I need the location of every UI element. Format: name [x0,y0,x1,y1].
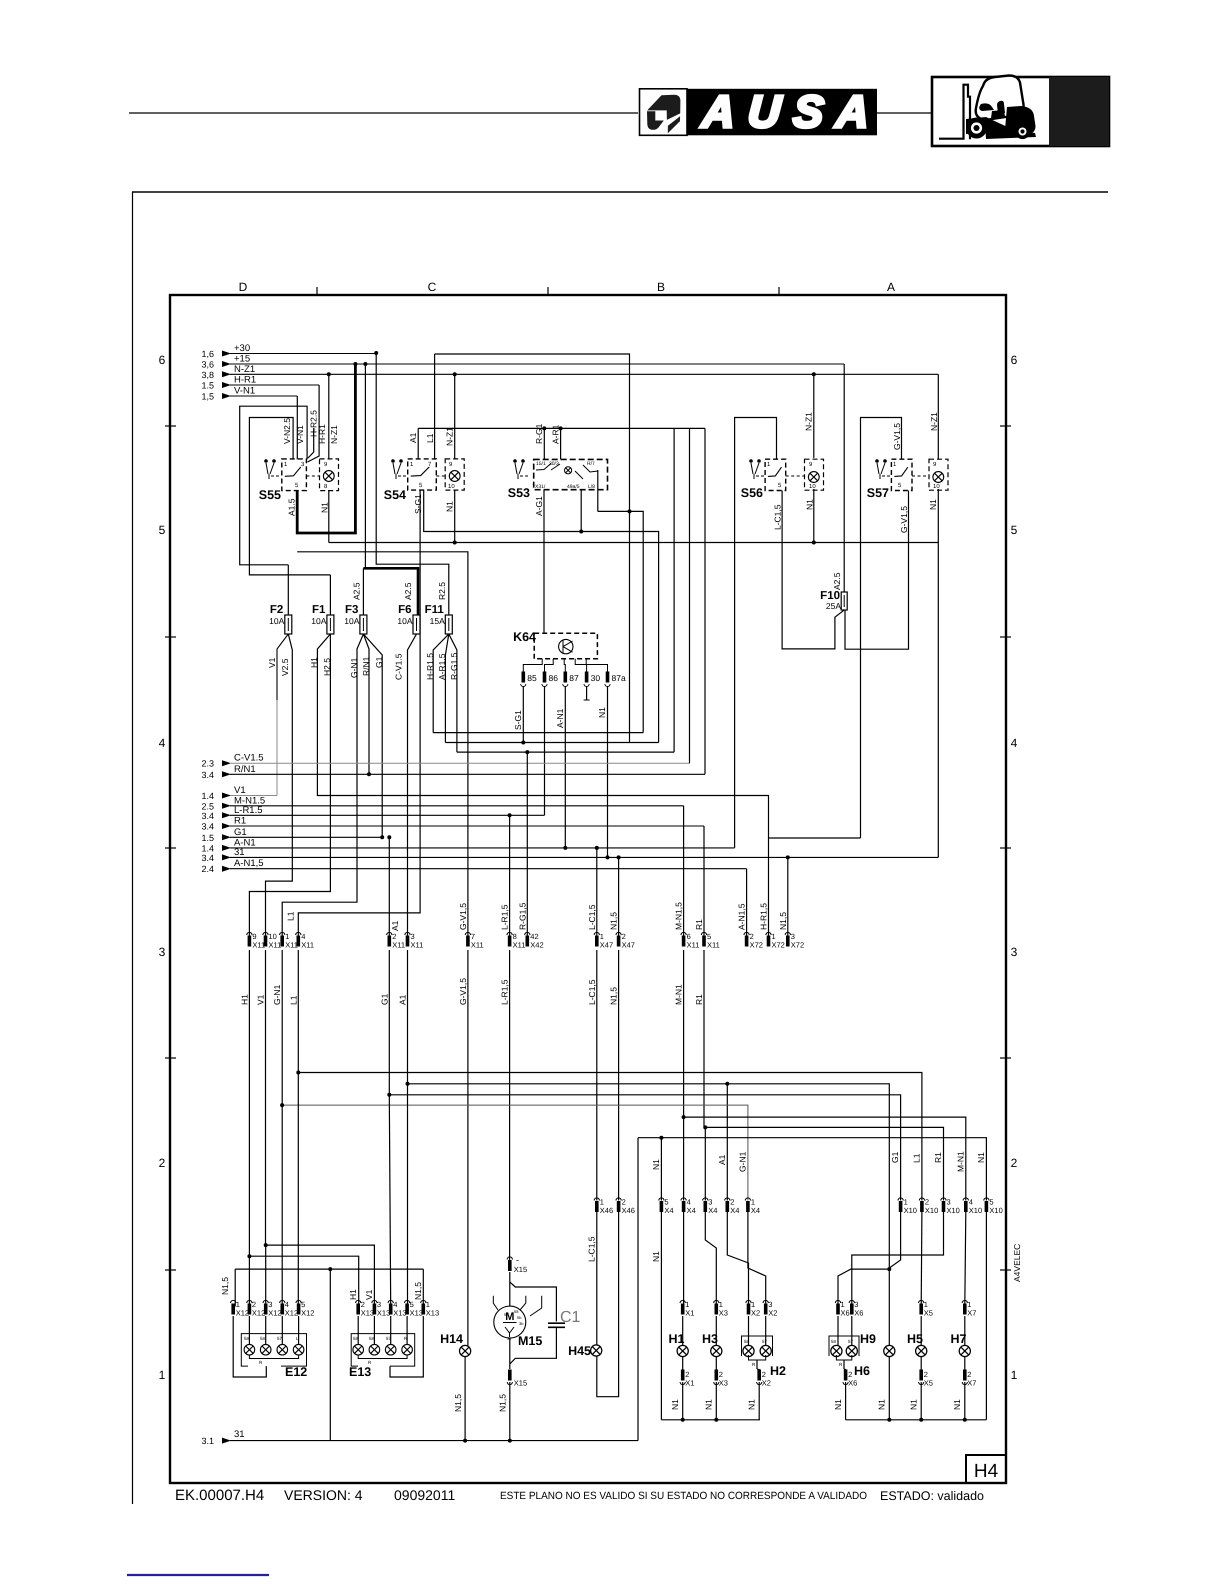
switch S55 toggle [264,459,268,463]
svg-text:10A: 10A [269,616,284,626]
wire lamp drop X6 [845,1368,847,1371]
wire X10.3 drop to X6.3 [852,1212,944,1307]
wire thick A2.5 link F3-F6 [363,568,418,615]
svg-text:N-Z1: N-Z1 [445,427,455,446]
wire F11 top feed [376,353,449,615]
wire H1 drop to bus [682,1382,684,1420]
svg-text:2.4: 2.4 [201,864,214,874]
svg-text:X72: X72 [750,941,763,950]
wire X10.1 drop to H9 [889,1212,900,1268]
connector X11 pin 4 [296,932,301,935]
svg-text:S-G1: S-G1 [413,494,423,514]
wire bus G1 row1094 [389,1095,900,1201]
connector X7 pin 2 bottom [963,1370,967,1381]
capacitor C1 [548,1322,565,1324]
wire S54 pinX31 drop [424,490,659,743]
connector X11 pin 2 [387,932,392,935]
connector X6 pin 2 bottom [844,1370,848,1381]
grid column tick [316,287,318,295]
wire S54 lamp N1 drop [454,490,456,543]
svg-text:X11: X11 [301,941,314,950]
svg-text:3: 3 [159,945,166,959]
svg-text:S53: S53 [508,486,530,500]
wire row511 (R-G...) [598,511,643,732]
svg-text:X46: X46 [622,1206,635,1215]
connector X12 pin 4 [280,1300,285,1303]
junction A-N1/X47.1 [595,846,599,850]
wire bus G-N1 row1105 [282,1105,748,1200]
lamp H45 [591,1345,602,1356]
svg-text:2: 2 [1011,1156,1018,1170]
svg-text:S56: S56 [741,486,763,500]
svg-text:5b: 5b [517,1315,522,1320]
connector X6 pin 1 top [835,1300,840,1303]
wire S53 pin49a drop [580,490,582,532]
connector X11 pin 10 [263,932,268,935]
svg-text:X11: X11 [285,941,298,950]
junction N1 row X4.5 [659,1136,663,1140]
svg-text:X11: X11 [687,941,700,950]
svg-text:R/N1: R/N1 [361,656,371,676]
svg-text:L1: L1 [288,995,298,1005]
relay K64 pin 30 [585,672,589,683]
junction G1/X11.2 [387,835,391,839]
wire F1 out H2.5 [249,634,330,938]
mech link S54 lamp [436,475,445,477]
junction E row 31 riser [328,1267,332,1271]
svg-text:30/3: 30/3 [549,461,559,467]
svg-text:X3: X3 [719,1379,728,1388]
svg-text:57: 57 [762,1339,768,1344]
wire X10.4 drop to X7.1 [965,1212,966,1307]
svg-text:X11: X11 [707,941,720,950]
svg-text:G1: G1 [890,1151,900,1163]
wire X4.2 riser [726,1084,728,1201]
svg-text:A2.5: A2.5 [403,582,413,600]
wire S53 pinR riser [597,470,599,511]
mech link S56 lamp [786,475,805,477]
relay K64 pin comb [523,659,542,672]
wire H6 drop to bus [845,1382,847,1420]
svg-text:C1: C1 [560,1309,581,1326]
junction N1bus/H1 [681,1418,685,1422]
junction 31/87a [606,855,610,859]
AUSA logo white box [640,89,688,136]
relay K64 pin 86 [543,672,547,683]
svg-text:58: 58 [353,1336,359,1341]
svg-text:X12: X12 [285,1309,298,1318]
lamp H6a [831,1345,842,1356]
wire loop V-N2.5 (S55 to F2) [240,406,307,565]
svg-text:R/N1: R/N1 [234,764,256,775]
wire X13 pin drop [357,1316,359,1344]
svg-text:L-R1,5: L-R1,5 [500,904,510,930]
wire F3 out R/N1 [363,634,369,774]
wire bus segment 354 (S54 feed) [435,354,630,743]
lamp H5 [916,1345,927,1356]
wire X47.1 riser [596,848,598,938]
wire X12 pin drop [281,1316,283,1344]
lamp H7 [959,1345,970,1356]
svg-text:86: 86 [549,673,559,683]
switch S55 [282,459,307,491]
svg-text:V-N2.5: V-N2.5 [282,418,292,444]
wire S56 pin1 feed loop [735,418,777,848]
wire X13 pin drop [406,1316,408,1344]
svg-text:V1: V1 [256,994,266,1005]
connector X46 pin 1 [594,1198,599,1201]
connector X4 pin 5 [659,1198,664,1201]
wire X6.3 to lamp [851,1316,853,1345]
svg-text:X11: X11 [252,941,265,950]
connector X13 pin 3 [372,1300,377,1303]
connector X1 pin 1 top [680,1300,685,1303]
switch S57 [891,459,912,490]
fuse F2 [285,615,292,634]
wire K64 pin87a drop N1 [607,686,609,857]
junction L1 row [296,1071,300,1075]
wire S57 lamp N1 drop [937,489,939,543]
svg-text:G-N1: G-N1 [349,657,359,678]
svg-text:A: A [887,280,895,294]
svg-text:09092011: 09092011 [394,1487,455,1503]
wire H5 drop to bus2 [920,1382,922,1420]
svg-text:5: 5 [1011,523,1018,537]
svg-text:X15: X15 [514,1265,527,1274]
svg-text:X4: X4 [751,1206,760,1215]
svg-text:31: 31 [234,847,245,858]
svg-text:3.4: 3.4 [201,770,214,780]
wire X7.1 to lamp [964,1316,966,1345]
wire L1 lower [297,1073,299,1307]
wire S56 lamp N1 drop [813,489,815,543]
svg-text:X31/: X31/ [535,484,546,490]
indicator lamp S53 [565,467,572,474]
junction 31/X72.3 [786,855,790,859]
junction +15/F3 [363,362,367,366]
svg-text:58: 58 [244,1336,250,1341]
wire H1 drop [249,950,358,1307]
svg-text:X46: X46 [600,1206,613,1215]
svg-text:X2: X2 [768,1309,777,1318]
connector X13 pin 2 [356,1300,361,1303]
svg-text:L-C1,5: L-C1,5 [587,979,597,1005]
junction H1 bus [247,1254,251,1258]
svg-text:A-N1,5: A-N1,5 [234,858,264,869]
connector X72 pin 2 [744,932,749,935]
junction 31/H14 [463,1439,467,1443]
svg-text:1.4: 1.4 [201,843,214,853]
svg-text:X72: X72 [791,941,804,950]
wire S57 pin feed loop [861,418,902,839]
junction 31/M15 [508,1439,512,1443]
wire row732 riser [433,732,643,734]
svg-text:L-C1,5: L-C1,5 [773,504,783,530]
relay K64 pin 87 [564,672,568,683]
svg-text:E12: E12 [285,1365,307,1379]
wire N1 bus right [846,1419,987,1421]
svg-text:H-R1: H-R1 [234,375,256,386]
svg-text:C-V1.5: C-V1.5 [234,753,264,764]
svg-text:2.5: 2.5 [201,801,214,811]
junction N1/S54 lamp [453,541,457,545]
svg-text:58: 58 [831,1339,837,1344]
lamp H9 [884,1345,895,1356]
svg-text:1: 1 [159,1368,166,1382]
lamp box S56 [805,459,824,490]
wire X13 pin drop [373,1316,375,1344]
junction +15/A1.5 [353,362,357,366]
switch S53 contacts [536,464,560,471]
svg-text:V1: V1 [364,1289,374,1300]
wire loop H-R2.5 (S55 to F1) [249,418,330,575]
wire lamp drop X1 [682,1357,684,1370]
svg-text:57: 57 [848,1339,854,1344]
wire rowC-V riser up [689,428,691,763]
indicator lamp S57 [933,472,944,483]
wire S56 lamp N-Z1 riser [813,374,815,458]
grid row tick right [1000,1269,1011,1271]
grid row tick left [165,1057,176,1059]
svg-text:L-C1,5: L-C1,5 [587,904,597,930]
junction row428/A-R1 [559,426,563,430]
wire X6.1 to lamp [837,1316,839,1345]
svg-text:3.4: 3.4 [201,853,214,863]
wire S57 pin5 drop G-V1.5 [845,491,909,650]
junction A1row/X4.2 [725,1082,729,1086]
junction row428/R-G1 [542,426,546,430]
svg-text:H1: H1 [309,657,319,668]
wire bus E row1269 [235,1268,423,1270]
svg-text:ESTE PLANO NO ES VALIDO SI SU: ESTE PLANO NO ES VALIDO SI SU ESTADO NO … [500,1490,867,1502]
junction row752/X42 [525,750,529,754]
wire S54 pin7 riser L1 [434,428,436,459]
svg-text:H3: H3 [702,1332,718,1346]
svg-text:5: 5 [159,523,166,537]
svg-text:N1: N1 [651,1159,661,1170]
wire V1 to X12.3 [265,1245,267,1306]
svg-text:N-Z1: N-Z1 [929,412,939,431]
svg-text:S57: S57 [867,486,889,500]
footer blue mark [127,1574,269,1576]
fuse F6 [413,615,420,634]
relay K64 pin 87a [606,672,610,683]
svg-text:G1: G1 [374,656,384,668]
wire lamp drop X3 [715,1357,717,1370]
lamp H1 [677,1345,688,1356]
svg-text:N1,5: N1,5 [778,912,788,930]
wire S55 lamp N1 drop [328,490,330,543]
svg-text:H1: H1 [669,1332,685,1346]
connector X4 pin 4 [681,1198,686,1201]
svg-text:58: 58 [369,1336,375,1341]
svg-text:M15: M15 [518,1334,542,1348]
wire bus M-N1 row1117 [684,1117,966,1200]
wire X10.2 drop to X5.1 [920,1212,923,1307]
svg-text:1,6: 1,6 [201,349,214,359]
svg-text:N1: N1 [833,1399,843,1410]
svg-text:N-Z1: N-Z1 [804,412,814,431]
svg-text:H5: H5 [907,1332,923,1346]
svg-text:2.3: 2.3 [201,759,214,769]
svg-text:D: D [239,280,248,294]
wire X15 to M15 [509,1272,511,1306]
svg-text:X11: X11 [471,941,484,950]
svg-text:G1: G1 [379,993,389,1005]
svg-text:A4VELEC: A4VELEC [1012,1244,1022,1282]
fuse F3 [360,615,367,634]
connector X72 pin 3 [785,932,790,935]
svg-text:R-G1,5: R-G1,5 [517,902,527,930]
wire F3 out G1 [363,634,382,837]
svg-text:X5: X5 [924,1379,933,1388]
wire H2 drop to bus [758,1382,760,1420]
svg-text:X4: X4 [687,1206,696,1215]
svg-text:F3: F3 [345,604,358,616]
svg-text:X10: X10 [925,1206,938,1215]
wire bus row428 [418,427,705,429]
grid row tick left [165,847,176,849]
wire X4.2 drop to X2.1 [727,1212,748,1307]
wire N1.5 drop X46.2 [618,950,620,1201]
svg-text:3,6: 3,6 [201,360,214,370]
svg-text:6: 6 [159,353,166,367]
svg-text:15A: 15A [430,616,445,626]
svg-text:3.4: 3.4 [201,822,214,832]
svg-text:V-N1: V-N1 [295,425,305,444]
svg-text:57: 57 [504,1312,509,1317]
wire X46.1 to H45 [596,1212,598,1345]
junction M-N1 row [682,1115,686,1119]
connector X5 pin 2 bottom [919,1370,923,1381]
svg-text:N1: N1 [320,502,330,513]
wire +15 riser to F10 [843,364,845,592]
svg-text:H45: H45 [568,1344,591,1358]
svg-text:X13: X13 [410,1309,423,1318]
wire S54 pin1 riser A1 [417,428,419,459]
wire F11 out R-G1.5 [449,634,457,752]
svg-text:F2: F2 [270,604,283,616]
svg-text:A2.5: A2.5 [352,582,362,600]
svg-text:1.4: 1.4 [201,791,214,801]
svg-text:L1: L1 [286,911,296,921]
junction R/N1-F3 [367,772,371,776]
switch S56 [765,459,786,490]
wire L1 drop [297,950,299,1073]
svg-text:R2.5: R2.5 [437,582,447,600]
wire S56 pin5 drop L-C1.5 [782,491,844,649]
connector X12 pin 1 [231,1300,236,1303]
wire S53 A-G1 drop to K64 [543,490,545,634]
header rule left [129,112,638,114]
svg-text:X42: X42 [530,941,543,950]
junction row742/pin85 [521,741,525,745]
svg-text:M-N1: M-N1 [956,1151,966,1172]
wire F1 top stub [329,575,331,615]
svg-text:10: 10 [448,483,455,490]
svg-text:10A: 10A [344,616,359,626]
svg-text:N1,5: N1,5 [220,1277,230,1295]
connector X47 pin 2 [616,932,621,935]
svg-text:A1: A1 [398,994,408,1005]
lamp box S55 [320,459,339,491]
wire row742 [445,742,658,744]
connector X1 pin 2 bottom [681,1370,685,1381]
svg-text:X3: X3 [719,1309,728,1318]
wire X11.6 riser [683,806,685,938]
wire V-N1 riser to S55 [296,396,298,459]
svg-text:N1: N1 [805,499,815,510]
svg-text:L1: L1 [425,433,435,443]
svg-text:3,8: 3,8 [201,370,214,380]
svg-text:R1: R1 [694,919,704,930]
connector X12 pin 3 [263,1300,268,1303]
svg-text:A1: A1 [717,1154,727,1165]
svg-text:N1,5: N1,5 [609,987,619,1005]
wire bus N1 row542 [329,542,939,544]
svg-text:87a: 87a [612,673,626,683]
svg-text:N-Z1: N-Z1 [234,364,255,375]
svg-text:85: 85 [527,673,537,683]
inner frame [170,295,1006,1483]
switch S57 toggle [875,459,879,463]
wire row551 G-V1.5 [297,552,468,938]
title box H4 [966,1455,1006,1483]
connector X4 pin 2 [725,1198,730,1201]
svg-text:10A: 10A [311,616,326,626]
wire X4.3 drop to X3.1 [705,1212,716,1307]
wire N1 to X4.5 [660,1138,662,1201]
forklift black panel [1049,77,1109,146]
svg-text:N-Z1: N-Z1 [329,425,339,444]
wire A1 drop [407,950,409,1084]
connector X12 pin 2 [247,1300,252,1303]
svg-text:1,5: 1,5 [201,392,214,402]
wire A1.5 thick S55 branch [297,364,355,533]
indicator lamp S56 [808,472,819,483]
svg-text:N1: N1 [704,1399,714,1410]
svg-text:6: 6 [1011,353,1018,367]
junction N1bus/H7 [963,1418,967,1422]
connector X6 pin 3 top [849,1300,854,1303]
svg-text:H-R1: H-R1 [317,424,327,444]
svg-text:G-V1,5: G-V1,5 [458,978,468,1005]
svg-text:S54: S54 [384,488,406,502]
wire N1 bus left [661,1419,760,1421]
wire H1 to X12.2 [248,1256,250,1306]
relay K64 pin 85 [522,672,526,683]
junction N-Z1/S54 lamp [453,372,457,376]
wire F2 out V1 [277,634,288,700]
wire E row to X12.1 [234,1269,236,1306]
connector X4 pin 1 [745,1198,750,1201]
svg-text:V-N1: V-N1 [234,386,255,397]
svg-text:M-N1,5: M-N1,5 [674,902,684,930]
junction A1 row [406,1082,410,1086]
svg-text:A1.5: A1.5 [287,498,297,516]
wire S53 R-G1 riser [543,428,545,459]
junction L-R1.5/X11.8 [508,813,512,817]
wire X11.8 riser [509,815,511,938]
svg-text:X72: X72 [772,941,785,950]
connector X46 pin 2 [616,1198,621,1201]
connector X7 pin 1 top [962,1300,967,1303]
svg-text:A-N1,5: A-N1,5 [737,903,747,930]
svg-text:2: 2 [159,1156,166,1170]
wire R1 to X4.3 [704,1127,706,1200]
junction R1 row [703,1125,707,1129]
svg-text:X7: X7 [967,1309,976,1318]
